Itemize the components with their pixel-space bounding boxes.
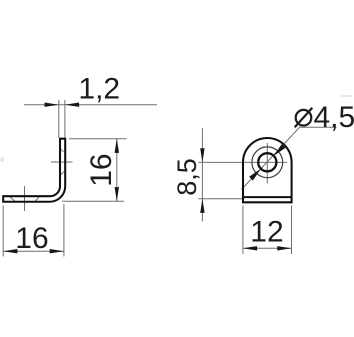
svg-text:8,5: 8,5 [172, 158, 202, 196]
svg-text:4,5: 4,5 [314, 101, 354, 134]
svg-text:16: 16 [85, 153, 118, 186]
svg-text:12: 12 [250, 215, 283, 248]
svg-text:16: 16 [15, 222, 48, 255]
svg-text:1,2: 1,2 [78, 73, 120, 106]
